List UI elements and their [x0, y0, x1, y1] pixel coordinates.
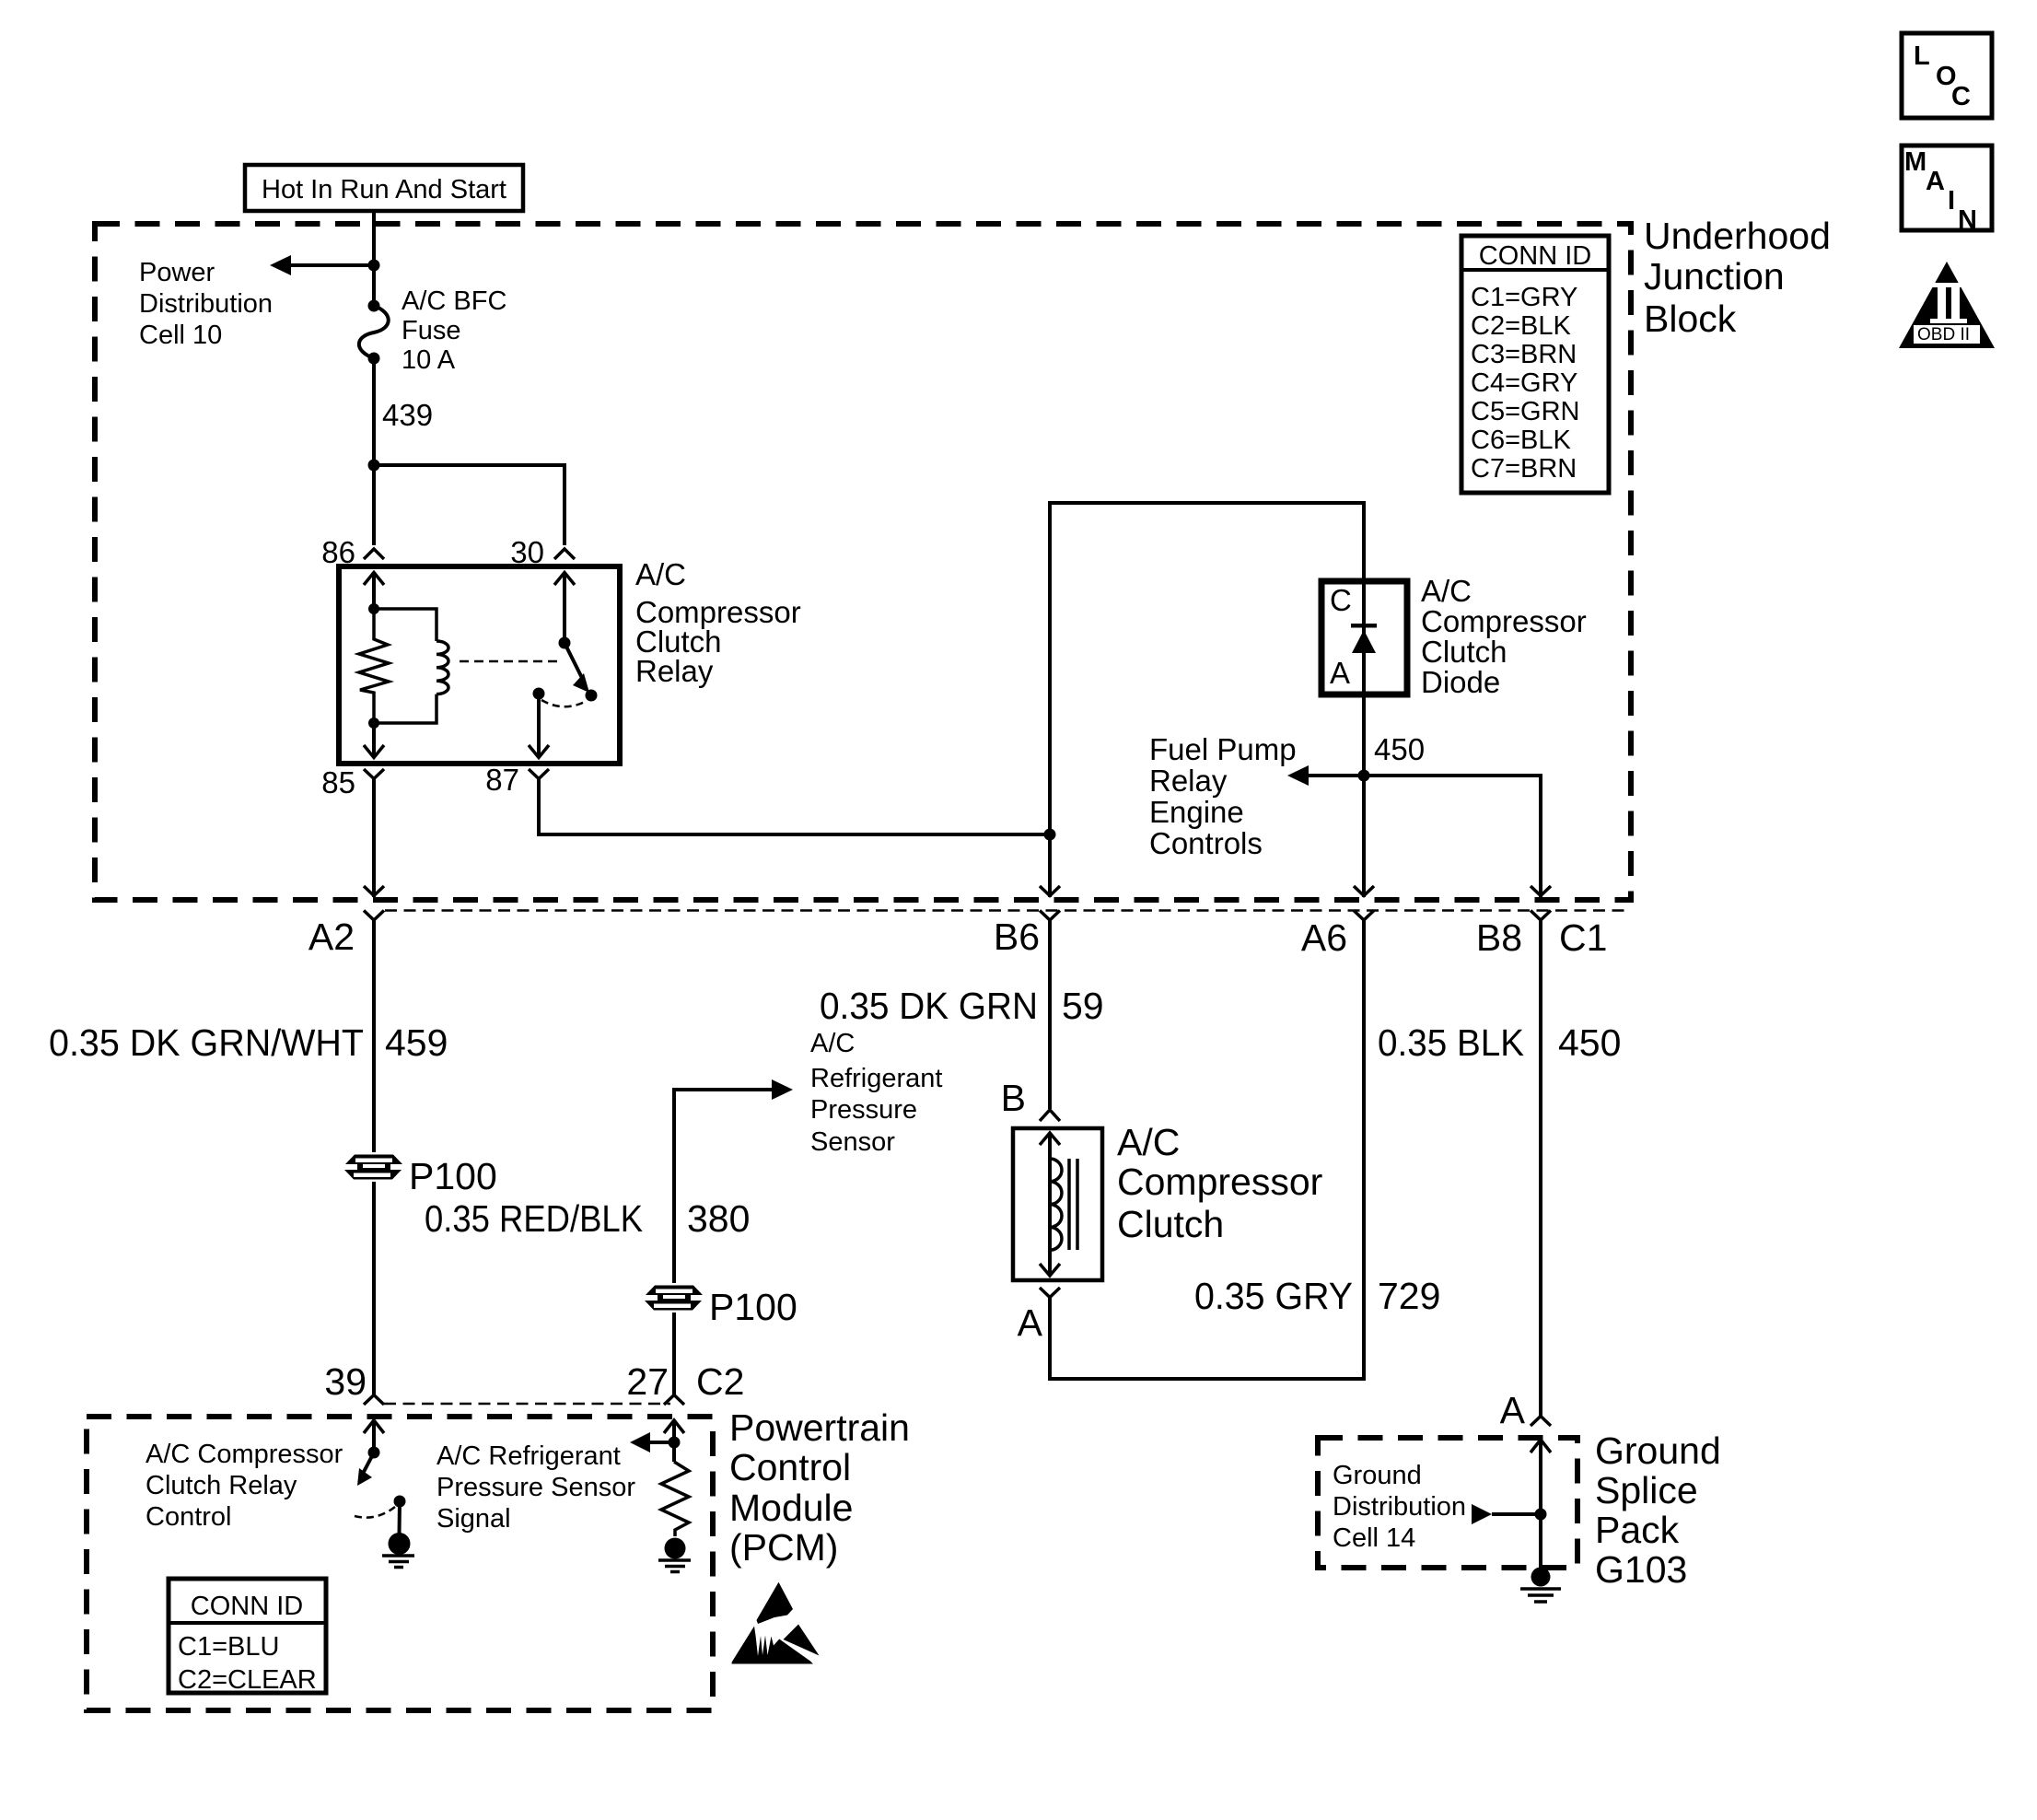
wire 459 A2 to PCM pin 39	[372, 920, 376, 1394]
label A/C Refrigerant Pressure Sensor	[810, 1029, 942, 1157]
LOC legend box	[1902, 33, 1992, 118]
svg-text:Sensor: Sensor	[810, 1127, 895, 1157]
wire to B8	[1364, 776, 1541, 897]
svg-text:Control: Control	[145, 1502, 232, 1532]
svg-text:A2: A2	[308, 916, 355, 958]
svg-text:Control: Control	[729, 1446, 851, 1488]
svg-text:Distribution: Distribution	[1333, 1492, 1466, 1522]
svg-text:(PCM): (PCM)	[729, 1526, 838, 1569]
PCM pin 39 chevron	[364, 1395, 384, 1406]
wire 380 sensor branch	[674, 1090, 772, 1394]
label Underhood Junction Block	[1644, 215, 1831, 340]
PCM pin 27 node	[669, 1437, 681, 1449]
svg-text:0.35 DK GRN/WHT: 0.35 DK GRN/WHT	[49, 1021, 364, 1064]
Underhood Junction Block dashed box	[95, 224, 1631, 900]
label Ground Splice Pack G103	[1595, 1429, 1721, 1591]
svg-text:459: 459	[385, 1021, 448, 1064]
label Fuel Pump Relay Engine Controls	[1149, 732, 1297, 860]
ESD sensitive device symbol	[732, 1582, 820, 1664]
diode symbol	[1351, 581, 1377, 694]
svg-text:A: A	[1330, 656, 1350, 690]
Hot In Run And Start box	[245, 165, 523, 211]
svg-text:87: 87	[485, 763, 519, 797]
svg-text:C6=BLK: C6=BLK	[1471, 426, 1571, 455]
ground distribution arrow	[1472, 1504, 1541, 1524]
relay switch dashed throw arc	[541, 700, 587, 706]
svg-text:C1=GRY: C1=GRY	[1471, 283, 1577, 312]
svg-text:C1=BLU: C1=BLU	[178, 1632, 279, 1662]
relay K (A/C Compressor Clutch Relay) box	[339, 566, 620, 764]
svg-text:A: A	[1018, 1301, 1043, 1344]
relay coil-switch dashed link	[460, 660, 560, 663]
PCM dashed box	[87, 1417, 713, 1710]
wire pin 85 to A2	[372, 779, 376, 898]
svg-text:Cell 10: Cell 10	[139, 321, 222, 350]
svg-text:B8: B8	[1476, 916, 1522, 959]
svg-text:27: 27	[626, 1360, 669, 1403]
svg-text:C1: C1	[1559, 916, 1607, 959]
svg-text:0.35 BLK: 0.35 BLK	[1378, 1021, 1524, 1064]
svg-text:A: A	[1500, 1389, 1526, 1431]
svg-text:Module: Module	[729, 1487, 853, 1529]
clutch pin B chevron	[1040, 1110, 1060, 1121]
svg-text:OBD II: OBD II	[1917, 325, 1970, 344]
svg-text:P100: P100	[409, 1155, 497, 1197]
label A/C Refrigerant Pressure Sensor Signal	[436, 1441, 635, 1534]
svg-text:N: N	[1958, 205, 1977, 235]
svg-text:A/C BFC: A/C BFC	[402, 286, 506, 316]
clutch internal arrows and coil	[1040, 1133, 1077, 1276]
relay coil-side terminal arrow (pin 86 inside)	[364, 572, 384, 609]
svg-text:Ground: Ground	[1333, 1461, 1422, 1490]
relay coil-side terminal arrow (pin 85 inside)	[364, 723, 384, 758]
svg-text:C7=BRN: C7=BRN	[1471, 454, 1577, 484]
A/C Compressor Clutch box	[1013, 1128, 1102, 1280]
svg-text:A/C: A/C	[1117, 1121, 1180, 1163]
svg-text:450: 450	[1558, 1021, 1621, 1064]
pin 85 chevron	[364, 769, 384, 779]
svg-text:Compressor: Compressor	[1421, 604, 1587, 638]
svg-text:A: A	[1926, 167, 1945, 196]
pin 30 chevron	[554, 549, 575, 559]
svg-text:Block: Block	[1644, 297, 1737, 340]
wire 729 clutch A to A6	[1050, 920, 1364, 1379]
node junction above relay	[368, 460, 380, 472]
label A/C Compressor Clutch Diode	[1421, 574, 1587, 699]
svg-text:C: C	[1951, 82, 1971, 111]
inline connector P100 (right)	[643, 1283, 705, 1312]
svg-text:Junction: Junction	[1644, 255, 1785, 297]
PCM pull resistor	[661, 1462, 689, 1536]
svg-text:Pressure Sensor: Pressure Sensor	[436, 1473, 635, 1502]
wire from Hot In Run And Start down	[372, 211, 376, 306]
arrow into junction boundary at B6	[1040, 886, 1060, 896]
svg-text:Fuse: Fuse	[402, 316, 460, 345]
relay switch common terminal arrow (pin 30 inside)	[554, 572, 575, 643]
svg-text:CONN ID: CONN ID	[191, 1592, 303, 1621]
svg-text:M: M	[1904, 147, 1926, 177]
PCM switch dashed throw arc	[355, 1507, 395, 1518]
PCM switch ground stem	[398, 1501, 402, 1534]
svg-text:729: 729	[1378, 1275, 1440, 1317]
G103 pin A chevron	[1531, 1417, 1551, 1427]
svg-text:B: B	[1001, 1077, 1026, 1119]
svg-text:CONN ID: CONN ID	[1479, 241, 1591, 271]
OBD II symbol	[1899, 262, 1995, 348]
svg-text:L: L	[1914, 41, 1930, 71]
svg-text:Powertrain: Powertrain	[729, 1406, 910, 1449]
svg-text:Power: Power	[139, 258, 215, 287]
pin B6 chevron	[1040, 911, 1060, 921]
pin A2 chevron	[364, 911, 384, 921]
svg-text:Relay: Relay	[1149, 764, 1228, 798]
svg-text:Clutch: Clutch	[1421, 635, 1507, 669]
pin B8 chevron	[1531, 911, 1551, 921]
svg-text:A/C: A/C	[810, 1029, 855, 1058]
svg-text:C2=BLK: C2=BLK	[1471, 311, 1571, 341]
label Power Distribution Cell 10	[139, 258, 273, 350]
svg-text:Clutch: Clutch	[1117, 1203, 1224, 1245]
svg-text:Fuel Pump: Fuel Pump	[1149, 732, 1297, 766]
Ground Splice Pack dashed box	[1318, 1438, 1577, 1568]
diode D (A/C Compressor Clutch Diode) box	[1321, 581, 1407, 694]
svg-text:Compressor: Compressor	[1117, 1161, 1322, 1203]
svg-text:85: 85	[321, 765, 355, 799]
svg-text:380: 380	[687, 1197, 750, 1240]
svg-text:A6: A6	[1301, 916, 1347, 959]
PCM switch contact node	[394, 1496, 406, 1508]
svg-text:Refrigerant: Refrigerant	[810, 1064, 942, 1093]
svg-text:C2=CLEAR: C2=CLEAR	[178, 1665, 317, 1695]
pin 86 chevron	[364, 549, 384, 559]
node on B6 wire	[1044, 829, 1056, 841]
wire 450 B8 to G103	[1539, 920, 1542, 1416]
clutch pin A chevron	[1040, 1288, 1060, 1298]
label A/C BFC Fuse 10 A	[402, 286, 506, 375]
wire 450 diode to A6	[1362, 694, 1366, 897]
svg-text:Splice: Splice	[1595, 1469, 1698, 1511]
svg-text:A/C: A/C	[635, 557, 686, 591]
relay switch blade	[565, 643, 598, 702]
label Ground Distribution Cell 14	[1333, 1461, 1466, 1553]
fuse F (A/C BFC Fuse 10 A)	[359, 300, 389, 365]
pin A6 chevron	[1354, 911, 1374, 921]
svg-text:39: 39	[324, 1360, 367, 1403]
svg-text:439: 439	[382, 398, 433, 432]
fuel pump relay arrow	[1287, 765, 1364, 786]
svg-text:Signal: Signal	[436, 1504, 511, 1534]
relay internal node bottom	[368, 717, 379, 729]
relay switch contact node	[533, 688, 545, 700]
svg-text:C5=GRN: C5=GRN	[1471, 397, 1579, 426]
svg-text:I: I	[1948, 186, 1955, 216]
MAIN legend box	[1902, 146, 1992, 235]
G103 node	[1535, 1509, 1547, 1521]
label Powertrain Control Module (PCM)	[729, 1406, 910, 1569]
svg-text:A/C: A/C	[1421, 574, 1472, 608]
svg-text:C3=BRN: C3=BRN	[1471, 340, 1577, 369]
ground G103	[1520, 1568, 1561, 1603]
relay internal node top	[368, 603, 379, 614]
pin 87 chevron	[529, 769, 549, 779]
inline connector P100 (left)	[343, 1152, 405, 1182]
svg-text:0.35 GRY: 0.35 GRY	[1194, 1275, 1353, 1317]
G103 entry arrow	[1531, 1440, 1551, 1569]
CONN ID table (PCM)	[169, 1579, 326, 1695]
power distribution arrow	[270, 255, 380, 275]
svg-text:A/C Refrigerant: A/C Refrigerant	[436, 1441, 621, 1471]
svg-text:C4=GRY: C4=GRY	[1471, 368, 1577, 398]
ground (switch)	[382, 1533, 414, 1568]
svg-text:Clutch Relay: Clutch Relay	[145, 1471, 297, 1500]
label A/C Compressor Clutch Relay Control	[145, 1440, 343, 1532]
PCM switch blade	[357, 1452, 374, 1486]
svg-text:59: 59	[1062, 985, 1104, 1027]
svg-text:Distribution: Distribution	[139, 289, 273, 319]
svg-text:Ground: Ground	[1595, 1429, 1721, 1472]
ground (resistor)	[658, 1538, 691, 1572]
svg-text:P100: P100	[709, 1286, 797, 1328]
svg-text:G103: G103	[1595, 1548, 1687, 1591]
label A/C Compressor Clutch Relay	[635, 557, 801, 688]
node on 450 wire	[1358, 770, 1370, 782]
wire 59 B6 to clutch	[1048, 920, 1052, 1109]
svg-text:10 A: 10 A	[402, 345, 456, 375]
wire B6 riser to diode feed	[1050, 503, 1364, 897]
PCM pin 27 entry arrow	[664, 1420, 684, 1462]
svg-text:Pack: Pack	[1595, 1509, 1680, 1551]
svg-text:Hot In Run And Start: Hot In Run And Start	[262, 175, 506, 204]
svg-text:Cell 14: Cell 14	[1333, 1523, 1415, 1553]
svg-text:Controls: Controls	[1149, 826, 1263, 860]
wire branch to pin 30	[374, 465, 565, 545]
wire pin 87 to B6 node	[539, 779, 1050, 835]
svg-text:C2: C2	[696, 1360, 744, 1403]
svg-text:0.35 DK GRN: 0.35 DK GRN	[820, 985, 1038, 1027]
svg-text:Relay: Relay	[635, 654, 714, 688]
svg-text:Diode: Diode	[1421, 665, 1500, 699]
arrow into junction boundary at A6	[1354, 886, 1374, 896]
label A/C Compressor Clutch	[1117, 1121, 1322, 1245]
svg-text:B6: B6	[994, 916, 1040, 958]
svg-text:0.35 RED/BLK: 0.35 RED/BLK	[425, 1197, 643, 1240]
svg-text:450: 450	[1374, 732, 1425, 766]
svg-text:Engine: Engine	[1149, 795, 1244, 829]
junction block connector dashed line	[385, 909, 1631, 912]
svg-text:A/C Compressor: A/C Compressor	[145, 1440, 343, 1469]
PCM switch pivot node	[368, 1447, 380, 1459]
relay coil L	[374, 609, 448, 723]
svg-text:Pressure: Pressure	[810, 1095, 917, 1125]
arrow into junction boundary at A2	[364, 886, 384, 896]
svg-text:Underhood: Underhood	[1644, 215, 1831, 257]
relay resistor	[359, 609, 389, 723]
PCM signal arrow	[630, 1432, 674, 1452]
arrow into junction boundary at B8	[1531, 886, 1551, 896]
arrow to A/C Refrigerant Pressure Sensor	[772, 1079, 793, 1100]
relay switch contact terminal arrow (pin 87 inside)	[529, 694, 549, 758]
relay switch pivot node	[559, 637, 571, 649]
PCM pin 27 chevron	[664, 1395, 684, 1406]
CONN ID table (junction block)	[1461, 236, 1609, 493]
PCM connector dashed line	[384, 1403, 670, 1406]
svg-text:C: C	[1330, 583, 1352, 617]
PCM pin 39 entry arrow	[364, 1420, 384, 1452]
wire 439	[372, 358, 376, 545]
